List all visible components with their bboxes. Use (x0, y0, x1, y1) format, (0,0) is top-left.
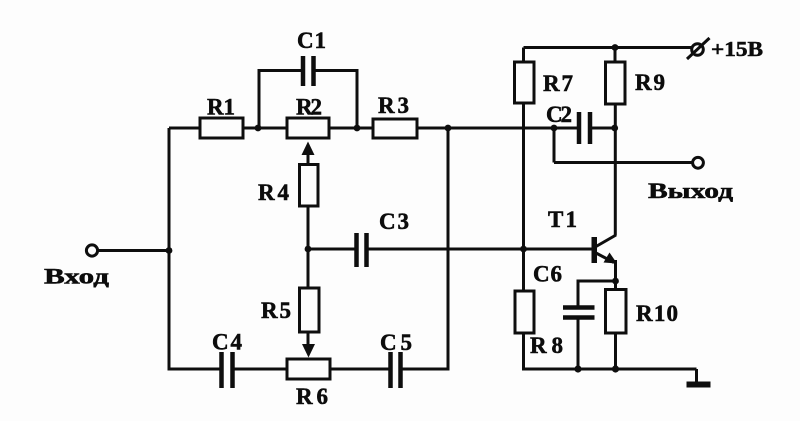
svg-text:T1: T1 (548, 207, 577, 232)
svg-text:R9: R9 (635, 70, 665, 95)
svg-text:R5: R5 (261, 298, 291, 323)
svg-text:R6: R6 (296, 384, 328, 409)
svg-text:+15В: +15В (711, 37, 763, 61)
svg-text:R7: R7 (543, 71, 573, 96)
svg-text:R8: R8 (530, 333, 563, 358)
svg-text:C5: C5 (380, 330, 412, 355)
svg-text:Выход: Выход (648, 178, 733, 203)
svg-text:R10: R10 (636, 301, 678, 326)
svg-text:R4: R4 (258, 180, 290, 205)
svg-text:R2: R2 (296, 95, 322, 120)
svg-text:C6: C6 (533, 262, 562, 287)
svg-text:Вход: Вход (44, 264, 109, 289)
svg-text:C3: C3 (379, 209, 409, 234)
svg-text:R1: R1 (207, 95, 235, 120)
svg-text:C1: C1 (297, 28, 326, 53)
svg-text:C4: C4 (212, 330, 243, 355)
svg-text:C2: C2 (546, 102, 572, 127)
svg-text:R3: R3 (378, 93, 409, 118)
